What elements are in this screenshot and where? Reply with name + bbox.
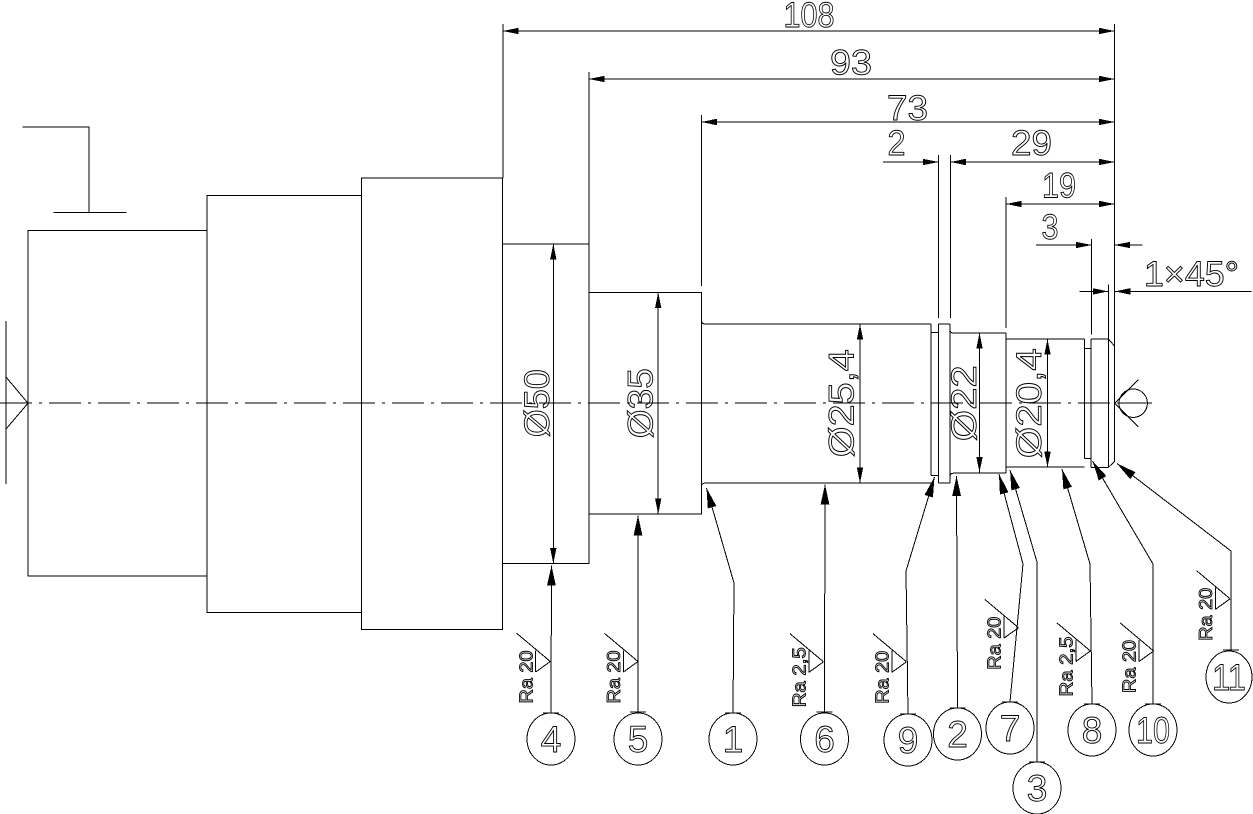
balloon 4 (527, 713, 575, 765)
svg-text:108: 108 (784, 0, 835, 35)
svg-text:Ra 20: Ra 20 (1120, 640, 1140, 693)
svg-text:Ra 20: Ra 20 (1196, 588, 1216, 641)
shaft section D35 (589, 293, 702, 515)
dimension 29 (950, 124, 1114, 165)
extension line 19 left (1005, 197, 1007, 328)
balloon 6 leader + Ra 2,5 (790, 485, 833, 713)
extension line groove left (937, 155, 939, 318)
end groove (walls and floors) (1084, 339, 1091, 467)
svg-text:Ø25,4: Ø25,4 (823, 349, 862, 457)
svg-text:3: 3 (1027, 768, 1048, 809)
chuck jaw block 2 (207, 196, 362, 613)
svg-text:Ra 20: Ra 20 (516, 651, 536, 704)
svg-text:Ra 20: Ra 20 (604, 651, 624, 704)
ring (2 wide) (938, 324, 1006, 483)
dimension 2 (groove width) (883, 124, 938, 165)
extension line 3 left (1090, 239, 1092, 335)
svg-text:Ra 2,5: Ra 2,5 (790, 647, 810, 707)
step face D22 to D20.4 (1005, 333, 1007, 473)
svg-text:Ø35: Ø35 (621, 368, 660, 438)
balloon 11 (1206, 651, 1252, 703)
svg-text:Ø20,4: Ø20,4 (1010, 348, 1049, 458)
dimension 1x45 chamfer (1080, 255, 1252, 295)
dimension D35 (621, 293, 661, 515)
svg-text:93: 93 (830, 44, 872, 83)
balloon 1 (709, 713, 757, 765)
balloon 11 leader + Ra 20 (1117, 464, 1239, 651)
end collar with 1x45 chamfer (1091, 339, 1115, 467)
balloon 2 leader (950, 476, 966, 708)
svg-text:8: 8 (1082, 710, 1103, 751)
svg-text:10: 10 (1136, 710, 1170, 751)
dimension 19 (1006, 167, 1114, 208)
chuck jaw block 3 (362, 178, 503, 629)
svg-text:2: 2 (947, 714, 968, 755)
balloon 2 (934, 708, 982, 760)
extension line chamfer start (1107, 285, 1109, 340)
centerline (0, 402, 1152, 404)
extension line groove right (949, 155, 951, 318)
extension line 73 left (700, 115, 702, 286)
balloon 7 (986, 702, 1034, 754)
dimension 108 (503, 0, 1115, 35)
balloon 5 (614, 713, 662, 765)
svg-text:Ø22: Ø22 (945, 365, 984, 441)
balloon 10 (1129, 704, 1177, 756)
center drill symbol (right end) (1115, 380, 1152, 428)
dimension D50 (518, 244, 557, 564)
balloon 3 (1013, 762, 1061, 814)
svg-text:Ra 20: Ra 20 (873, 651, 893, 704)
svg-text:2: 2 (888, 124, 906, 163)
balloon 1 leader (707, 488, 742, 713)
svg-text:Ra 2,5: Ra 2,5 (1056, 637, 1076, 697)
dimension 93 (589, 44, 1115, 83)
balloon 3 leader (1010, 470, 1045, 762)
svg-text:1×45°: 1×45° (1144, 255, 1239, 294)
dimension D25.4 (823, 324, 864, 483)
shaft section D20.4 surfaces (1006, 339, 1084, 467)
groove at D22 (walls and floors) (931, 324, 938, 483)
shaft section D25.4 surfaces (701, 321, 931, 487)
svg-text:5: 5 (628, 719, 649, 760)
chuck jaw block 1 (28, 231, 207, 577)
chuck clamp symbol (22, 127, 126, 213)
svg-text:19: 19 (1042, 167, 1076, 206)
extension line 108 left (502, 24, 504, 178)
balloon 9 (884, 714, 932, 766)
balloon 6 (801, 713, 849, 765)
dimension 3 (1036, 208, 1143, 248)
shaft section D50 (503, 244, 589, 564)
lathe center symbol (left) (6, 321, 28, 484)
svg-text:3: 3 (1042, 208, 1059, 247)
svg-text:Ra 20: Ra 20 (985, 617, 1005, 670)
extension line right end face (1114, 24, 1116, 346)
balloon 8 (1068, 704, 1116, 756)
extension line 93 left (588, 72, 590, 244)
dimension D22 (945, 333, 984, 472)
balloon 5 leader + Ra 20 (604, 516, 646, 713)
svg-text:1: 1 (723, 719, 744, 760)
svg-text:6: 6 (814, 719, 835, 760)
balloon 8 leader + Ra 2,5 (1056, 469, 1100, 704)
svg-text:29: 29 (1011, 124, 1052, 163)
svg-text:Ø50: Ø50 (518, 369, 557, 437)
svg-text:9: 9 (898, 720, 919, 761)
balloon 7 leader + Ra 20 (985, 474, 1024, 702)
svg-text:73: 73 (887, 89, 928, 128)
chamfer edge line (1107, 339, 1109, 467)
svg-text:11: 11 (1212, 657, 1246, 698)
balloon 9 leader + Ra 20 (873, 477, 935, 714)
balloon 4 leader + Ra 20 (516, 566, 559, 714)
balloon 10 leader + Ra 20 (1093, 461, 1162, 704)
svg-text:7: 7 (1000, 708, 1021, 749)
svg-text:4: 4 (541, 719, 562, 760)
dimension D20.4 (1010, 339, 1051, 467)
dimension 73 (701, 89, 1114, 128)
